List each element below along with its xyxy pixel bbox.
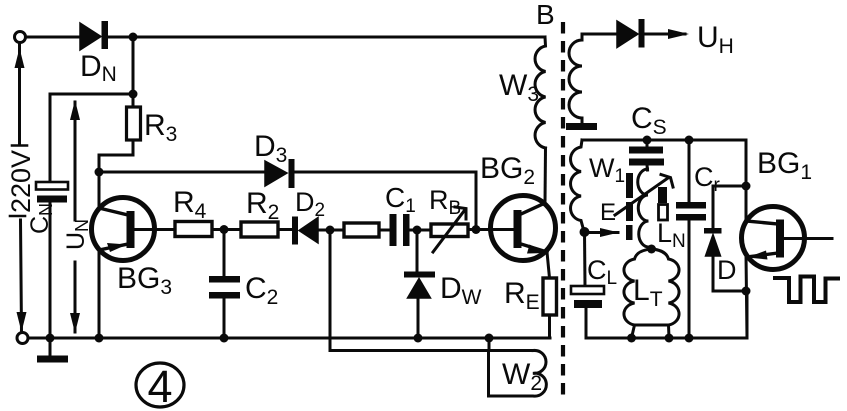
node	[742, 287, 751, 296]
tick below 220V	[10, 215, 25, 218]
node	[665, 334, 674, 343]
terminal input top	[15, 32, 26, 43]
wire R3 top lead	[132, 94, 135, 107]
svg-text:RE: RE	[504, 277, 540, 314]
arrow 220V line bottom	[17, 220, 27, 332]
resistor R4	[175, 222, 212, 237]
resistor R2	[241, 222, 278, 237]
node D3 branch junction	[472, 225, 481, 234]
transistor BG2	[491, 196, 556, 261]
svg-text:4: 4	[147, 361, 172, 411]
wire BG2 emitter to RE	[547, 252, 550, 278]
winding W3	[535, 37, 545, 148]
wire	[318, 229, 344, 232]
wire BG2 collector to W3	[544, 148, 548, 203]
node D2-W2 junction	[326, 226, 335, 235]
capacitor C1	[390, 214, 410, 246]
svg-text:Cr: Cr	[694, 162, 721, 196]
diode output rectifier	[617, 19, 645, 48]
node top junction	[129, 33, 138, 42]
wire RB to BG2	[468, 228, 513, 231]
resistor RE	[543, 278, 557, 315]
ground secondary	[566, 118, 597, 130]
node	[485, 334, 494, 343]
svg-text:R4: R4	[173, 186, 207, 223]
arrow UH output	[644, 29, 689, 39]
wire RE to rail	[548, 315, 551, 338]
transistor BG3	[92, 198, 155, 261]
capacitor C2 branch	[209, 230, 240, 339]
wire CN bottom	[49, 203, 52, 339]
svg-text:220V: 220V	[6, 150, 36, 213]
svg-text:DN: DN	[80, 50, 117, 86]
bottom rail right	[586, 291, 747, 338]
wire BG1 collector	[745, 140, 748, 221]
transformer core	[561, 22, 565, 400]
resistor R3	[127, 107, 141, 140]
capacitor Cr branch	[676, 140, 706, 338]
transistor BG1	[742, 207, 805, 270]
svg-text:BG1: BG1	[757, 147, 812, 184]
svg-text:B: B	[536, 0, 555, 30]
svg-text:R3: R3	[144, 109, 177, 146]
svg-text:C2: C2	[245, 272, 278, 309]
diode DN	[80, 21, 108, 50]
svg-text:W3: W3	[499, 69, 539, 106]
winding secondary top	[569, 34, 617, 118]
node	[685, 334, 694, 343]
svg-text:UN: UN	[62, 219, 92, 250]
arrow E adjust	[586, 228, 619, 237]
node R4-C2 junction	[220, 225, 229, 234]
svg-text:D3: D3	[254, 130, 287, 167]
diode D3	[265, 159, 295, 188]
bottom rail left	[28, 337, 550, 340]
resistor RB variable	[431, 207, 468, 252]
svg-text:W1: W1	[589, 153, 625, 187]
capacitor CN	[36, 182, 68, 203]
wire	[50, 94, 133, 182]
wire BG3 collector	[98, 172, 101, 208]
wire	[278, 228, 292, 231]
node R3 top junction	[129, 90, 138, 99]
wire BG1 emitter	[746, 255, 747, 338]
svg-text:UH: UH	[697, 21, 734, 58]
svg-text:RB: RB	[429, 185, 461, 219]
zener diode DW branch	[404, 230, 435, 338]
capacitor CL	[571, 286, 604, 308]
node Cs junction	[643, 136, 652, 145]
svg-text:D: D	[717, 255, 737, 285]
diode D2	[292, 217, 318, 245]
node	[742, 182, 751, 191]
wire D3 to BG2 base branch	[294, 172, 476, 227]
svg-text:LN: LN	[657, 218, 686, 252]
node W1 bottom	[580, 227, 590, 237]
node	[46, 334, 55, 343]
svg-text:CS: CS	[631, 102, 667, 139]
wire	[379, 229, 390, 232]
inductor LT	[624, 249, 679, 338]
arrow UN measure line	[70, 100, 80, 333]
wire top rail	[108, 36, 545, 39]
terminal input bottom	[17, 333, 28, 344]
winding W1	[571, 140, 584, 232]
wire D3 line	[99, 171, 265, 174]
winding W2	[489, 350, 547, 396]
node A	[95, 168, 104, 177]
svg-text:DW: DW	[440, 272, 482, 309]
svg-text:BG2: BG2	[480, 152, 535, 189]
wire	[132, 37, 135, 94]
svg-text:R2: R2	[246, 187, 279, 224]
wire BG1 base lead	[784, 237, 832, 240]
wire BG3 base lead	[134, 228, 175, 231]
diode D branch	[704, 186, 746, 291]
svg-text:LT: LT	[633, 274, 663, 311]
svg-text:W2: W2	[502, 358, 542, 395]
wire W1 to CL	[583, 232, 587, 286]
wire R3 bottom bend	[99, 140, 133, 169]
arrow 220V line top	[15, 44, 25, 143]
wire CL to rail	[585, 308, 588, 338]
svg-text:D2: D2	[295, 187, 325, 221]
svg-text:E: E	[600, 199, 616, 226]
wire BG3 emitter down	[98, 250, 101, 338]
node	[95, 334, 104, 343]
tick above 220V	[12, 144, 27, 147]
square wave symbol	[775, 277, 838, 303]
capacitor Cs	[629, 140, 664, 170]
wire	[410, 229, 432, 232]
wire	[26, 36, 80, 39]
figure number 4	[136, 361, 184, 411]
node	[220, 334, 229, 343]
svg-text:BG3: BG3	[117, 262, 172, 299]
inductor LN variable with core	[615, 169, 673, 247]
resistor unlabeled	[344, 223, 379, 237]
node	[414, 334, 423, 343]
node LN bottom	[647, 245, 656, 254]
wire W2 to rail	[488, 338, 491, 350]
node Cr junction top	[685, 136, 694, 145]
wire	[212, 228, 241, 231]
svg-text:CL: CL	[587, 255, 617, 289]
ground	[37, 338, 68, 363]
wire right top rail	[582, 139, 746, 142]
node	[627, 334, 636, 343]
svg-text:C1: C1	[385, 182, 416, 217]
node C1-DW junction	[413, 226, 422, 235]
wire W2 feedback	[330, 230, 533, 351]
